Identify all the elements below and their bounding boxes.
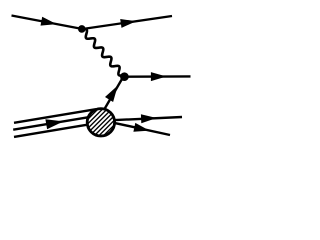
- outgoing hadron lower line: [112, 122, 170, 135]
- lepton-photon vertex dot: [78, 25, 86, 33]
- arrow on incoming hadron: [45, 119, 63, 129]
- hadron blob (hatched circle): [46, 97, 156, 147]
- arrow on outgoing lepton: [120, 19, 136, 28]
- arrow on outgoing hadron upper: [141, 114, 157, 123]
- incoming hadron middle line: [13, 116, 94, 129]
- outgoing quark line: [124, 75, 190, 78]
- arrow on incoming lepton: [41, 17, 57, 26]
- outgoing hadron upper line: [112, 117, 182, 120]
- arrow on struck quark: [105, 86, 118, 103]
- incoming hadron bottom line: [14, 124, 92, 137]
- photon-quark vertex dot: [120, 72, 129, 81]
- arrow on outgoing hadron lower: [133, 123, 149, 132]
- photon wavy line: [82, 29, 126, 76]
- arrow on outgoing quark: [151, 72, 167, 81]
- struck quark line (blob to vertex): [104, 79, 122, 110]
- outgoing lepton line: [83, 16, 173, 29]
- Feynman diagram: deep inelastic scattering: [0, 0, 202, 161]
- incoming hadron top line: [14, 109, 96, 123]
- incoming lepton line: [12, 16, 83, 30]
